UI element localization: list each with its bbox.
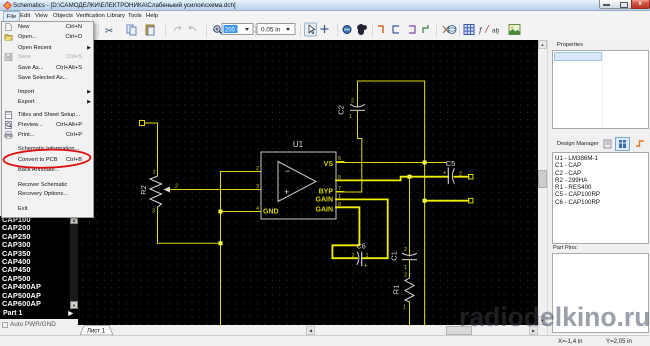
- svg-text:−: −: [285, 166, 290, 176]
- wire tools: [378, 26, 383, 33]
- resistor R2 (potentiometer): [150, 176, 162, 207]
- right pin stubs: [336, 162, 344, 208]
- op-amp U1 box: [261, 152, 336, 219]
- zoom combo: [222, 24, 253, 35]
- svg-text:2: 2: [351, 99, 354, 105]
- svg-text:C6: C6: [356, 242, 366, 251]
- wire R2 bottom down and right: [158, 207, 221, 243]
- svg-text:2: 2: [175, 184, 178, 190]
- svg-text:2: 2: [404, 247, 407, 253]
- place part: [343, 26, 351, 34]
- output terminal 2: [469, 198, 474, 203]
- VS wire: [336, 162, 446, 164]
- gnd terminal wire: [425, 200, 469, 202]
- grid icon: [464, 25, 474, 35]
- svg-text:C5: C5: [446, 159, 456, 168]
- tab bar + horizontal scrollbar row: [77, 325, 547, 335]
- undo/redo grayed: [174, 26, 181, 31]
- junction dots: [219, 210, 223, 214]
- svg-text:ƒ: ƒ: [478, 26, 483, 35]
- input terminal square: [140, 121, 145, 126]
- capacitor C2: [357, 81, 359, 107]
- svg-text:C1: C1: [390, 251, 399, 261]
- svg-text:2: 2: [404, 273, 407, 279]
- cursor tool (selected): [305, 23, 317, 36]
- output net (pin5): [336, 177, 448, 181]
- svg-text:4: 4: [256, 206, 259, 212]
- svg-text:3: 3: [256, 184, 259, 190]
- top power wire: [358, 80, 425, 82]
- svg-text:1: 1: [366, 253, 369, 259]
- power vertical wire: [424, 81, 426, 325]
- red ellipse highlight around Convert to PCB: [0, 147, 100, 171]
- svg-text:2: 2: [351, 253, 354, 259]
- Auto PWR/GND: [0, 319, 78, 332]
- design manager icons: [603, 137, 649, 152]
- R2 wiper arrow: [164, 187, 171, 193]
- gain pin8 net: [332, 207, 359, 258]
- svg-text:Лист 1: Лист 1: [87, 329, 106, 335]
- capacitor C5: [447, 168, 449, 183]
- svg-text:GAIN: GAIN: [316, 197, 334, 204]
- svg-text:1: 1: [152, 170, 155, 176]
- junction output: [408, 175, 412, 179]
- svg-text:6: 6: [338, 156, 341, 162]
- svg-text:2: 2: [256, 166, 259, 172]
- gnd vertical wire: [220, 172, 222, 326]
- zoom icons: [214, 26, 223, 35]
- svg-text:VS: VS: [324, 161, 334, 168]
- net: [443, 26, 449, 33]
- svg-text:+: +: [364, 263, 368, 270]
- wire pin2: [221, 171, 262, 173]
- capacitor C6: [357, 252, 359, 264]
- find: [358, 24, 364, 35]
- svg-text:R1: R1: [392, 285, 401, 295]
- svg-text:R2: R2: [139, 185, 148, 195]
- grid combo: [257, 24, 295, 35]
- canvas vertical scrollbar: [538, 40, 547, 325]
- svg-text:1: 1: [349, 114, 352, 120]
- output terminal 1: [469, 175, 474, 180]
- wire pin4: [221, 211, 262, 213]
- resistor R1: [405, 278, 414, 302]
- sphere: [448, 26, 456, 34]
- svg-text:GND: GND: [263, 209, 279, 216]
- wire wiper to pin3: [170, 189, 261, 191]
- paste: [146, 25, 154, 35]
- list scrollbar: [70, 216, 78, 309]
- svg-text:BYP: BYP: [319, 189, 334, 196]
- svg-text:✂: ✂: [105, 26, 113, 37]
- svg-text:ab̼: ab̼: [492, 28, 500, 35]
- component list: [0, 216, 70, 309]
- svg-text:0.05 in: 0.05 in: [261, 27, 281, 34]
- copy: [127, 25, 136, 35]
- capacitor C1: [403, 253, 417, 255]
- junctions on power wire: [423, 161, 427, 165]
- canvas corner collapse button: [77, 41, 85, 50]
- svg-text:1: 1: [404, 265, 407, 271]
- wire down to C1: [409, 177, 411, 256]
- svg-text:+: +: [443, 171, 447, 177]
- svg-text:+: +: [284, 187, 289, 197]
- op-amp triangle: [278, 162, 316, 202]
- svg-text:7: 7: [338, 186, 341, 192]
- svg-text:U1: U1: [293, 140, 304, 149]
- svg-text:200: 200: [225, 28, 236, 34]
- svg-text:C2: C2: [337, 105, 346, 115]
- gain pin1 net: [336, 199, 388, 258]
- svg-text:GAIN: GAIN: [316, 207, 334, 214]
- pin numbers U1: [256, 156, 341, 212]
- svg-text:1: 1: [403, 305, 406, 311]
- plus: [321, 25, 329, 33]
- wire input to R2 top: [145, 123, 158, 176]
- Part 1 bar: [0, 309, 78, 320]
- svg-text:3: 3: [152, 209, 155, 215]
- image icon: [509, 25, 520, 35]
